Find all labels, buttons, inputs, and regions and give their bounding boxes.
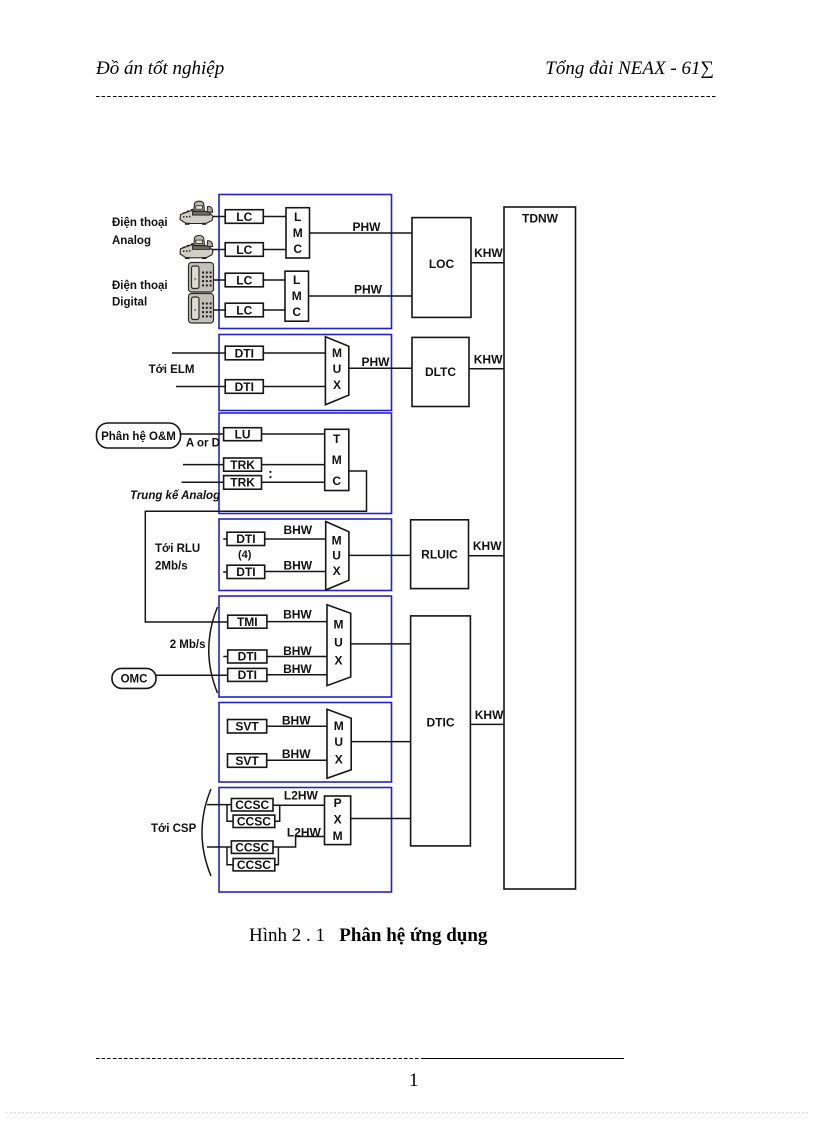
wire CSP input 2 to CCSC3 [207,846,231,848]
wire BHW DTI6 to MUX5 [267,674,327,676]
wire PHW MUX1 to DLTC [349,367,412,369]
wire phone2 to LC2 [208,249,225,251]
svg-text:Điện thoại: Điện thoại [112,217,168,229]
block CCSC3 [231,841,273,854]
block LC3 [225,273,263,287]
svg-text:BHW: BHW [282,714,311,728]
svg-text:PHW: PHW [353,220,382,234]
svg-text:DTI: DTI [235,346,254,360]
wire LU to TMC [262,433,325,435]
wire ELM stub to DTI2 [176,386,225,388]
svg-text:Digital: Digital [112,297,147,309]
wire BHW TMI to MUX5 [267,621,327,623]
svg-text:DTI: DTI [235,380,254,394]
wire branch to CCSC2 left [227,805,233,822]
svg-text:DTIC: DTIC [427,716,455,730]
svg-text:TRK: TRK [230,458,255,472]
header right title [545,59,714,78]
svg-text:BHW: BHW [283,662,312,676]
wire KHW DLTC to TDNW [469,368,504,370]
wire BHW DTI5 to MUX5 [267,656,327,658]
wire L2HW CCSC1 to PXM [273,804,325,806]
svg-text:LMC: LMC [293,210,303,256]
svg-text:Tới RLU: Tới RLU [155,543,200,555]
group frame G2 (DTI mux shelf) [219,335,392,411]
wire DTI5 stub [223,656,227,658]
block DTI6 [228,668,267,681]
svg-text:BHW: BHW [283,558,312,572]
wire LC4 to LMC2 [263,309,285,311]
svg-text:CCSC: CCSC [237,858,271,872]
svg-text:Tới CSP: Tới CSP [151,823,197,835]
block LC2 [225,243,263,257]
svg-text:Trung kế Analog: Trung kế Analog [130,490,220,502]
block LMC1 [286,208,310,258]
wire phone3 to LC3 [211,279,225,281]
wire L2HW CCSC3 to PXM [273,837,325,848]
svg-text:LU: LU [235,427,251,441]
wire BHW DTI3 to MUX4 [265,538,326,540]
svg-text:Điện thoại: Điện thoại [112,280,168,292]
block LC1 [225,210,263,224]
group frame G5 (2Mb/s shelf) [219,596,392,697]
svg-text:TMC: TMC [332,432,342,488]
svg-text:DLTC: DLTC [425,365,456,379]
icon digital phone 2 [189,294,214,324]
faint page-bottom dotted rule [6,1112,810,1113]
wire DTI2 to MUX1 [263,386,325,388]
block DTI4 [227,565,265,578]
wire MUX4 to RLUIC [349,554,411,556]
svg-text:MUX: MUX [332,346,342,392]
svg-text:PXM: PXM [333,796,343,843]
wire TRK1 to TMC [262,464,325,466]
mux MUX5 [327,605,351,686]
icon analog phone 1 [180,201,213,225]
wire CSP input 1 to CCSC1 [207,804,231,806]
wire KHW DTIC to TDNW [470,723,504,725]
block RLUIC [411,520,469,589]
wire BHW DTI4 to MUX4 [265,571,326,573]
wire CCSC4 right join [275,847,279,865]
stadium Phan he O&M [97,423,181,448]
svg-text:DTI: DTI [236,532,255,546]
footer dashed rule [96,1058,423,1059]
svg-text:BHW: BHW [282,747,311,761]
bracket Toi CSP group [202,789,211,876]
svg-text:MUX: MUX [334,719,344,767]
wire DTI1 to MUX1 [263,352,325,354]
group frame G7 (CCSC shelf) [219,788,392,893]
svg-text:CCSC: CCSC [237,815,271,829]
wire PHW LMC1 to LOC [310,232,413,234]
mux MUX1 [325,337,348,405]
svg-text:KHW: KHW [474,246,503,260]
wire branch to CCSC4 left [227,847,233,865]
svg-text:(4): (4) [238,549,252,561]
block SVT1 [228,720,267,734]
svg-text:DTI: DTI [238,650,257,664]
block PXM [325,796,351,845]
group frame G6 (SVT shelf) [219,703,392,783]
svg-text:KHW: KHW [474,353,503,367]
wire phone4 to LC4 [211,309,225,311]
svg-text:PHW: PHW [354,283,383,297]
group frame G3 (trunk shelf) [219,413,392,514]
wire DTI4 stub [223,571,227,573]
wire TMC output loop down to TMI [145,471,366,622]
wire OMC to DTI6 [156,674,228,676]
svg-text:LC: LC [236,273,252,287]
block LOC [412,218,471,318]
wire TRK2 to TMC [262,481,325,483]
svg-text:LC: LC [236,243,252,257]
wire KHW LOC to TDNW [471,262,504,264]
svg-text:DTI: DTI [238,668,257,682]
page number [409,1071,419,1090]
svg-text:BHW: BHW [283,523,312,537]
svg-text:CCSC: CCSC [235,798,269,812]
group frame G4 (RLU shelf) [219,519,392,591]
svg-text:BHW: BHW [283,608,312,622]
wire PHW LMC2 to LOC [309,295,413,297]
wire phone1 to LC1 [208,216,225,218]
svg-text:LC: LC [236,210,252,224]
wire TRK1 stub [183,464,224,466]
svg-text:CCSC: CCSC [235,840,269,854]
svg-text:2Mb/s: 2Mb/s [155,561,188,573]
figure caption [249,925,487,947]
group frame G1 (line/LMC shelf) [219,195,392,329]
block TDNW [504,207,576,889]
block TMI [228,615,267,628]
wire DTI3 stub [223,538,227,540]
svg-text:Phân hệ O&M: Phân hệ O&M [101,431,176,443]
block DTI2 [225,380,263,394]
block LU [224,428,262,441]
wire MUX6 to DTIC [351,741,410,743]
svg-text:KHW: KHW [475,708,504,722]
block DTI5 [228,650,267,663]
svg-text:OMC: OMC [121,674,148,686]
block CCSC1 [231,799,273,812]
block TRK2 [224,476,262,490]
svg-text:L2HW: L2HW [287,825,322,839]
svg-text:KHW: KHW [473,539,502,553]
mux MUX6 [327,709,351,778]
svg-text:DTI: DTI [236,565,255,579]
svg-text:TRK: TRK [230,476,255,490]
svg-text:SVT: SVT [235,754,259,768]
block DTI1 [225,346,263,360]
wire TRK2 stub [182,481,224,483]
wire LC2 to LMC1 [263,249,285,251]
svg-text:TMI: TMI [237,615,258,629]
wire PXM to DTIC [351,818,411,820]
bracket 2Mb/s group [209,607,218,693]
stadium OMC [112,668,156,688]
header left title [96,59,224,78]
block TRK1 [224,458,262,471]
header dashed rule [96,96,716,97]
block LMC2 [285,271,309,321]
svg-text:TDNW: TDNW [522,212,559,226]
block DTIC [411,616,471,846]
svg-text:MUX: MUX [332,534,342,579]
block TMC [325,429,349,490]
wire MUX5 to DTIC [351,643,411,645]
svg-text:L2HW: L2HW [284,789,319,803]
svg-text:LC: LC [236,303,252,317]
wire ELM stub to DTI1 [172,352,225,354]
svg-text:LOC: LOC [429,257,455,271]
wire BHW SVT2 to MUX6 [267,759,327,761]
svg-text:BHW: BHW [283,644,312,658]
svg-text::: : [268,465,273,481]
svg-text:SVT: SVT [235,720,259,734]
block LC4 [225,303,263,317]
block DLTC [412,337,469,406]
block CCSC4 [233,859,275,871]
svg-text:A or D: A or D [186,438,220,450]
svg-text:Analog: Analog [112,235,151,247]
wire O&M stadium to LU [180,433,224,435]
svg-text:2 Mb/s: 2 Mb/s [170,639,206,651]
icon digital phone 1 [189,263,214,293]
wire CCSC2 right join [275,805,280,821]
svg-text:PHW: PHW [362,355,391,369]
block CCSC2 [233,815,275,827]
svg-text:RLUIC: RLUIC [421,547,458,561]
wire LC1 to LMC1 [263,216,285,218]
wire KHW RLUIC to TDNW [469,555,505,557]
svg-text:MUX: MUX [334,618,344,668]
wire BHW SVT1 to MUX6 [267,725,327,727]
block DTI3 [227,532,265,545]
mux MUX4 [326,522,349,591]
icon analog phone 2 [180,236,213,260]
svg-text:LMC: LMC [292,273,302,319]
footer solid rule [423,1058,624,1059]
block SVT2 [228,754,267,768]
svg-text:Tới ELM: Tới ELM [149,364,195,376]
wire LC3 to LMC2 [263,279,285,281]
